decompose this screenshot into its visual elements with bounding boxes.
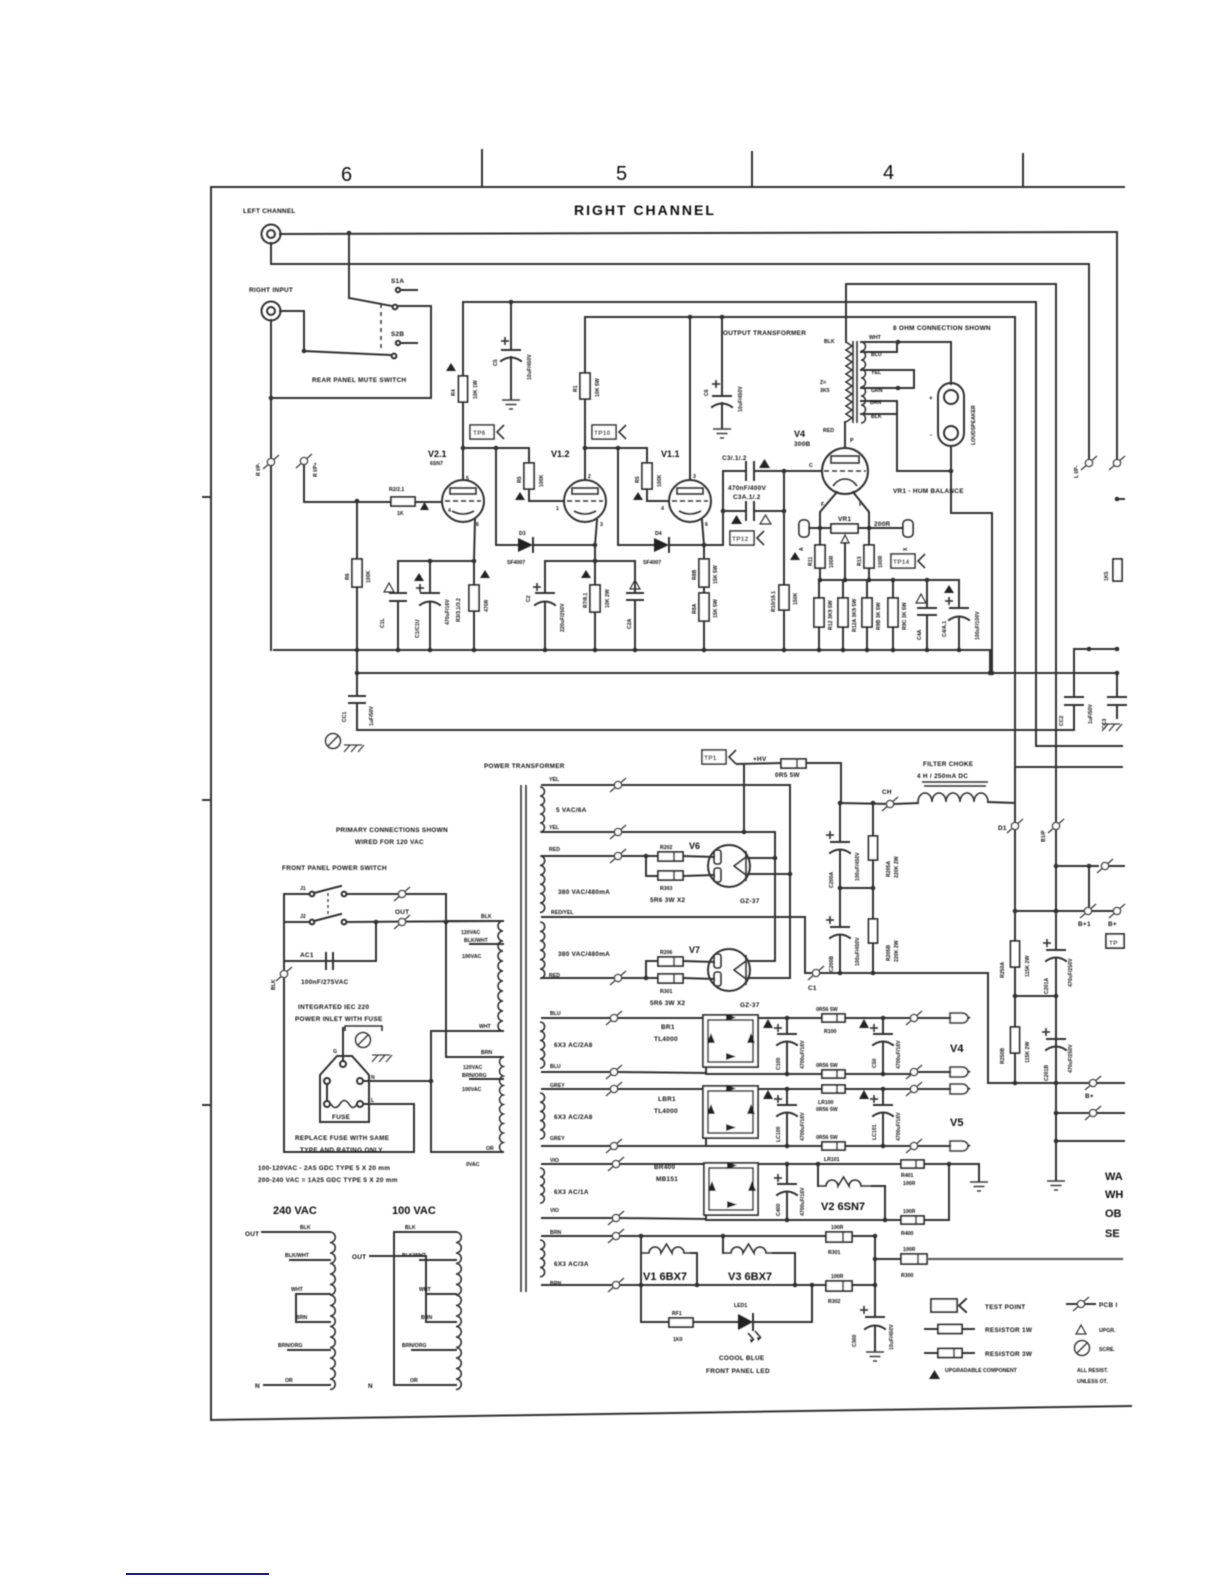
svg-text:470R: 470R [484,599,490,612]
svg-text:R12A 3K9 5W: R12A 3K9 5W [852,599,858,632]
node C6 tap [720,315,725,320]
capacitor C201B [1047,1038,1065,1040]
pcb pin OUT [394,915,410,929]
pcb pin R I/P- [263,455,279,469]
chassis ground [344,745,364,752]
svg-text:VR1: VR1 [838,516,851,523]
resistor R12 [814,598,824,627]
svg-text:V6: V6 [689,841,700,851]
svg-text:100R: 100R [831,1274,844,1280]
coupling cap C3 [704,544,723,546]
test point TP10 [592,425,626,439]
svg-text:R302: R302 [828,1299,841,1305]
svg-text:J1: J1 [300,886,306,892]
svg-text:R1: R1 [573,385,579,392]
row3 bottom rail [542,1217,616,1219]
wire b-minus down [1055,1083,1057,1141]
svg-text:BRN: BRN [421,1315,432,1321]
svg-text:V1.1: V1.1 [661,449,680,459]
capacitor AC1 [284,960,376,962]
wire R5 to V1.2 grid [529,489,564,501]
OPT primary winding [846,342,852,422]
L wire [285,1104,414,1152]
resistor 0R5 5W [737,763,781,764]
svg-text:L I/P-: L I/P- [1074,465,1080,478]
svg-text:120VAC: 120VAC [461,930,480,936]
tap BLK [861,413,897,415]
svg-text:BRN: BRN [296,1315,307,1321]
svg-text:S1A: S1A [391,278,404,285]
V2 heater [817,1164,819,1186]
svg-text:5: 5 [616,163,627,185]
svg-text:4: 4 [661,506,664,512]
spade terminal X [903,520,913,537]
svg-text:TP12: TP12 [732,536,749,543]
wire right feedback bus down L [1116,232,1118,463]
resistor R206 [644,976,649,981]
svg-text:C201A: C201A [1044,978,1050,994]
svg-text:470uF/250V: 470uF/250V [1068,1044,1074,1073]
loudspeaker [938,383,964,446]
zone tick left a [203,496,211,498]
drop to B+1 [1088,866,1090,911]
upgrade triangle at grid [420,502,429,510]
wire V1.1 plate up [689,317,691,480]
B+ rail 317 [585,316,1015,318]
svg-text:OUT: OUT [245,1231,259,1238]
svg-text:R I/P-: R I/P- [256,462,262,476]
tap BLU [861,342,897,352]
svg-text:LED1: LED1 [734,1303,747,1309]
V3 heater [722,1236,724,1253]
svg-text:RED: RED [549,847,560,853]
svg-text:B+1: B+1 [1078,921,1091,928]
svg-text:15K 5W: 15K 5W [713,565,719,584]
svg-text:6X3 AC/2A8: 6X3 AC/2A8 [554,1114,593,1121]
wire left jack pin to right bus [280,232,1117,234]
svg-text:RF1: RF1 [672,1311,682,1317]
row1 bottom rail [542,1071,614,1073]
svg-text:R401: R401 [901,1173,914,1179]
svg-text:POWER TRANSFORMER: POWER TRANSFORMER [484,763,565,770]
ground bus A [274,649,990,651]
svg-text:*: * [968,1016,971,1023]
capacitor C6 [721,317,723,396]
svg-text:6X3 AC/1A: 6X3 AC/1A [554,1189,589,1196]
svg-text:BLK/WHT: BLK/WHT [285,1253,310,1259]
svg-text:P: P [850,438,854,444]
capacitor C200A [839,803,841,842]
diode D4 [618,544,654,546]
svg-text:150K: 150K [793,592,799,605]
svg-text:BLK: BLK [824,339,835,345]
svg-text:PCB I: PCB I [1099,1302,1118,1309]
svg-text:RED: RED [823,428,834,434]
svg-text:N: N [368,1383,373,1390]
pcb pin yel2 [610,825,626,839]
svg-text:100R: 100R [903,1247,916,1253]
svg-text:10uF/450V: 10uF/450V [889,1324,895,1350]
pcb pin D1 [1007,819,1023,833]
resistor R7 [594,561,596,585]
resistor R6 [356,501,358,559]
svg-text:1K5: 1K5 [1104,571,1110,581]
svg-text:0R5 5W: 0R5 5W [775,772,801,779]
svg-text:R202: R202 [660,845,673,851]
wire left jack shield down [271,243,1089,264]
svg-text:+: + [929,395,933,402]
WHT lead [431,1030,503,1032]
svg-text:240 VAC: 240 VAC [273,1205,317,1217]
rectifier V6 [708,845,750,887]
secondary 380V winding lower [540,922,545,978]
svg-text:220K 2W: 220K 2W [894,856,900,878]
svg-text:6: 6 [476,522,479,528]
svg-text:BRN: BRN [870,400,881,406]
svg-text:100R: 100R [903,1181,916,1187]
potentiometer VR1 [831,524,858,533]
svg-text:5R6 3W X2: 5R6 3W X2 [650,1000,686,1007]
svg-text:R400: R400 [901,1231,914,1237]
svg-text:200R: 200R [874,521,891,528]
wire shield to ground bus A [270,466,272,650]
wire input to grid [304,465,391,502]
wire V1.2 cathode [595,520,597,545]
tap BRN [861,401,897,414]
svg-text:R3/3.1/3.2: R3/3.1/3.2 [456,598,462,622]
rail 996 [1015,995,1056,997]
svg-text:BRN/ORG: BRN/ORG [278,1343,303,1349]
capacitor C100 [786,1018,788,1034]
capacitor LC100 [786,1089,788,1105]
filament rail upper [820,579,959,581]
legend test point [931,1299,957,1312]
svg-text:V4: V4 [794,429,805,439]
svg-text:R5: R5 [635,476,641,483]
svg-text:RIGHT CHANNEL: RIGHT CHANNEL [574,202,716,218]
svg-text:TP6: TP6 [473,430,486,437]
wire D1 down [1014,830,1016,941]
resistor R205B [872,888,874,919]
resistor R250B [1014,996,1016,1027]
svg-text:1K0: 1K0 [673,1337,683,1343]
svg-text:10uF/450V: 10uF/450V [738,386,744,412]
wire S1A pole [348,233,350,298]
svg-text:BR400: BR400 [654,1164,676,1171]
row 1141 [1056,1140,1124,1142]
svg-text:5: 5 [466,476,469,482]
row4 bottom rail [542,1284,826,1286]
zone tick left b [203,799,211,801]
svg-text:4700uF/16V: 4700uF/16V [800,1040,806,1069]
svg-text:D3: D3 [519,531,526,537]
footer link line [126,1573,269,1575]
svg-text:C50: C50 [872,1058,878,1068]
svg-text:FUSE: FUSE [332,1114,351,1121]
svg-text:CC1: CC1 [342,712,348,722]
svg-text:100R: 100R [831,1225,844,1231]
svg-text:1uF/50V: 1uF/50V [1088,704,1094,724]
legend upgradable [929,1370,940,1379]
wire choke out [988,802,1015,822]
capacitor C2 [544,561,546,593]
ruler tick 3 [1022,154,1024,187]
wire plate rail 1 [463,447,529,449]
cathode rail stage2 [545,560,635,562]
resistor R250A [1011,941,1020,967]
wire V2.1 plate [462,448,464,480]
row4 top rail [542,1235,826,1237]
speaker feed wire [950,342,952,384]
svg-text:GZ-37: GZ-37 [740,898,760,905]
svg-text:OUT: OUT [352,1254,366,1261]
resistor R11 [819,528,821,545]
chassis ground right [1102,724,1122,731]
svg-text:15K 5W: 15K 5W [713,599,719,618]
resistor R8B [703,545,705,559]
svg-text:2: 2 [588,474,591,480]
test point TP partial [1106,934,1124,948]
ground bus C [357,729,1074,731]
pcb pin R I/P+ [296,454,312,468]
node V1.1 plate tap [688,315,693,320]
svg-text:REAR PANEL MUTE SWITCH: REAR PANEL MUTE SWITCH [312,377,406,384]
primary winding 1 [498,921,503,1031]
resistor R13 [864,545,874,568]
resistor R8A [703,587,705,593]
svg-text:200-240 VAC = 1A25 GDC TYPE 5: 200-240 VAC = 1A25 GDC TYPE 5 X 20 mm [258,1177,398,1184]
svg-text:R300: R300 [901,1273,914,1279]
svg-text:5 VAC/6A: 5 VAC/6A [556,807,587,814]
svg-text:TP: TP [1109,940,1118,947]
svg-text:R303: R303 [660,886,673,892]
svg-text:100VAC: 100VAC [462,1087,481,1093]
svg-text:FRONT PANEL LED: FRONT PANEL LED [706,1368,770,1375]
svg-text:300B: 300B [794,441,811,448]
node C5 tap [509,300,514,305]
ground bus B [357,672,1117,674]
resistor R205A [872,803,874,836]
BRN/ORG tap [470,1078,503,1080]
svg-text:GRN: GRN [871,388,883,394]
chassis screw [326,734,341,749]
svg-text:R206: R206 [660,950,673,956]
svg-text:10K 1W: 10K 1W [473,380,479,399]
wire V2.1 cathode [474,519,475,561]
svg-text:CH: CH [882,789,892,796]
VR1 right wire [858,527,903,529]
resistor R2/2.1 [391,497,415,506]
test point TP12 [730,531,764,545]
svg-text:10K 2W: 10K 2W [605,589,611,608]
svg-text:V2 6SN7: V2 6SN7 [821,1201,865,1213]
wire D3 branch [495,448,497,545]
switch link [327,893,329,918]
svg-text:TP1: TP1 [704,755,717,762]
pcb pin BLK [276,967,292,981]
switch S2B contact [396,341,400,345]
svg-text:470uF/250V: 470uF/250V [1068,958,1074,987]
svg-text:X: X [903,547,909,551]
legend upgrade triangle [1076,1325,1086,1334]
svg-text:PRIMARY CONNECTIONS SHOWN: PRIMARY CONNECTIONS SHOWN [336,827,448,834]
wire R5b to V1.1 grid [647,489,669,501]
svg-text:BLK: BLK [271,979,277,990]
svg-text:BLU: BLU [550,1011,561,1017]
border frame left [210,187,212,1420]
svg-text:BLU: BLU [871,352,882,358]
node fb stub [1115,497,1120,502]
svg-text:LC101: LC101 [872,1124,878,1140]
resistor R1 [580,373,590,399]
tube V1.1 [669,480,711,522]
svg-text:C2A: C2A [627,618,633,629]
svg-text:INTEGRATED IEC 220: INTEGRATED IEC 220 [298,1004,369,1011]
svg-text:TEST POINT: TEST POINT [985,1304,1026,1311]
svg-text:TL4000: TL4000 [654,1036,678,1043]
wire V4 plate [844,422,846,448]
tube V4 300B [822,448,868,494]
B1/P vertical [1055,284,1057,822]
svg-text:OR: OR [285,1378,293,1384]
pcb pin L I/P+ [1109,456,1125,470]
capacitor C201A [1047,949,1065,951]
capacitor C4 [958,580,960,608]
svg-text:6X3 AC/3A: 6X3 AC/3A [554,1261,589,1268]
svg-text:WH: WH [1105,1189,1123,1201]
svg-text:POWER INLET WITH FUSE: POWER INLET WITH FUSE [295,1016,383,1023]
svg-text:4700uF/16V: 4700uF/16V [896,1112,902,1141]
svg-text:C5: C5 [493,359,499,366]
svg-text:V4: V4 [950,1043,964,1055]
BLK/WHT tap [470,943,503,945]
svg-text:1: 1 [556,506,559,512]
rail 1083 [988,1082,1089,1084]
svg-text:0R56 5W: 0R56 5W [816,1007,838,1013]
capacitor C400 [786,1164,788,1184]
svg-text:R9C 3K 5W: R9C 3K 5W [902,602,908,630]
svg-text:WIRED FOR 120 VAC: WIRED FOR 120 VAC [355,839,424,846]
resistor R202 [644,854,649,859]
LED1 [738,1314,753,1330]
svg-text:470uF/16V: 470uF/16V [445,599,451,625]
svg-text:100R: 100R [829,555,835,568]
svg-text:Z=: Z= [820,380,826,386]
bridge BR400 [704,1163,758,1215]
svg-text:3K5: 3K5 [820,388,830,394]
svg-text:UNLESS OT.: UNLESS OT. [1077,1379,1108,1385]
svg-text:TL4000: TL4000 [654,1108,678,1115]
svg-text:A: A [799,547,805,551]
svg-text:V5: V5 [950,1117,963,1129]
svg-text:WHT: WHT [419,1287,432,1293]
svg-text:100uF/450V: 100uF/450V [855,852,861,881]
row1 top rail [542,1017,706,1019]
ground C6 [713,429,731,438]
svg-text:115K 2W: 115K 2W [1025,956,1031,977]
svg-text:OUTPUT TRANSFORMER: OUTPUT TRANSFORMER [723,330,806,337]
legend resistor 1W [925,1328,938,1330]
svg-text:C6: C6 [704,389,710,396]
svg-text:RIGHT INPUT: RIGHT INPUT [249,287,293,294]
svg-text:BRN: BRN [481,1050,492,1056]
svg-text:V2.1: V2.1 [428,449,447,459]
bridge BR1 [703,1015,758,1067]
resistor R9B [862,598,872,627]
capacitor LC101 [882,1089,884,1105]
ruler tick 1 [481,150,483,187]
svg-text:R6: R6 [345,573,351,580]
svg-text:S2B: S2B [391,331,404,338]
svg-text:380 VAC/480mA: 380 VAC/480mA [558,951,610,958]
V1 heater [640,1236,642,1322]
svg-text:V1.2: V1.2 [551,449,570,459]
svg-text:SCRE.: SCRE. [1099,1347,1115,1353]
svg-text:REPLACE FUSE WITH SAME: REPLACE FUSE WITH SAME [295,1135,390,1142]
coupling cap C3A [721,509,726,514]
capacitor C5 [510,302,512,350]
wire V7 fil lower [748,977,790,979]
svg-text:BLK: BLK [481,914,492,920]
svg-text:6X3 AC/2A8: 6X3 AC/2A8 [554,1042,593,1049]
PT core [520,785,522,1292]
pcb pin CH [882,797,898,811]
pcb pin red1 [610,849,626,863]
svg-text:10uF/450V: 10uF/450V [527,354,533,380]
svg-text:0R56 5W: 0R56 5W [816,1107,838,1113]
svg-text:R301: R301 [828,1250,841,1256]
svg-text:C4A: C4A [917,629,923,640]
svg-text:B+: B+ [1085,1093,1094,1100]
svg-text:WHT: WHT [869,335,882,341]
row 1113 [1056,1112,1089,1114]
upgrade triangle R4 [446,363,456,371]
svg-text:R I/P+: R I/P+ [313,462,319,477]
svg-text:R12 3K9 5W: R12 3K9 5W [828,600,834,630]
row2 bottom rail [542,1145,614,1147]
svg-text:YEL: YEL [871,370,882,376]
svg-text:LR100: LR100 [818,1100,834,1106]
capacitor CC3 [1116,673,1118,697]
primary feed vertical [445,894,447,1057]
svg-text:D4: D4 [655,531,662,537]
svg-text:LBR1: LBR1 [658,1096,676,1103]
svg-text:SE: SE [1105,1228,1120,1240]
svg-text:100uF/450V: 100uF/450V [855,937,861,966]
svg-text:R13: R13 [857,556,863,566]
svg-text:R5: R5 [517,476,523,483]
wire V6 fil lower [748,873,790,875]
svg-text:R9B 3K 5W: R9B 3K 5W [876,602,882,630]
svg-text:YEL: YEL [549,777,560,783]
wire D4 branch [617,448,619,545]
svg-text:WHT: WHT [291,1287,304,1293]
svg-text:D1: D1 [998,825,1007,832]
svg-text:C2: C2 [526,595,532,602]
svg-text:C3/.1/.2: C3/.1/.2 [722,455,747,462]
capacitor C200B [839,888,841,927]
svg-text:OUT: OUT [395,909,409,916]
resistor R301b [658,974,683,983]
resistor R5b [642,463,652,489]
node R6 tap [355,499,360,504]
svg-text:UPGRADABLE COMPONENT: UPGRADABLE COMPONENT [945,1368,1018,1374]
svg-text:LOUDSPEAKER: LOUDSPEAKER [971,405,977,445]
svg-text:R11: R11 [808,557,814,566]
svg-text:C400: C400 [776,1203,782,1216]
speaker return [897,414,992,673]
wire 1015 down [1014,317,1016,804]
